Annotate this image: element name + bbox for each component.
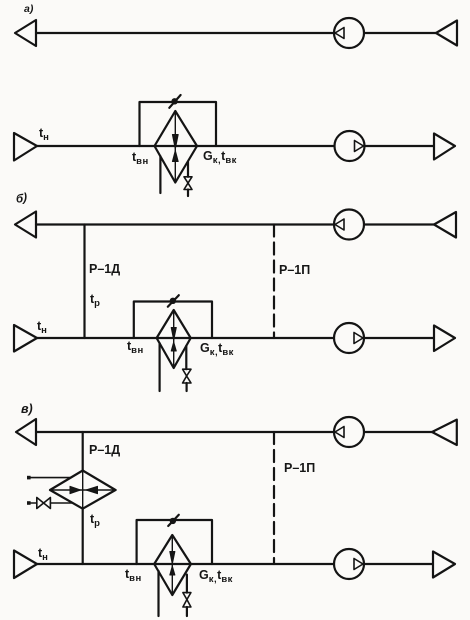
svg-text:в): в): [21, 402, 33, 416]
svg-text:а): а): [24, 3, 34, 15]
svg-text:Gк,tвк: Gк,tвк: [203, 149, 237, 166]
svg-text:tн: tн: [37, 319, 47, 336]
svg-text:б): б): [16, 193, 27, 206]
svg-text:Р–1П: Р–1П: [284, 461, 315, 475]
svg-text:tвн: tвн: [132, 150, 149, 167]
svg-text:tн: tн: [38, 546, 48, 563]
svg-text:Р–1Д: Р–1Д: [89, 262, 120, 276]
svg-text:Gк,tвк: Gк,tвк: [200, 341, 234, 358]
svg-text:tвн: tвн: [125, 567, 142, 584]
svg-text:tвн: tвн: [127, 339, 144, 356]
svg-text:Р–1Д: Р–1Д: [89, 443, 120, 457]
svg-text:tр: tр: [90, 292, 100, 309]
svg-text:tн: tн: [39, 126, 49, 143]
svg-text:Gк,tвк: Gк,tвк: [199, 568, 233, 585]
svg-text:Р–1П: Р–1П: [279, 263, 310, 277]
svg-text:tр: tр: [90, 512, 100, 529]
